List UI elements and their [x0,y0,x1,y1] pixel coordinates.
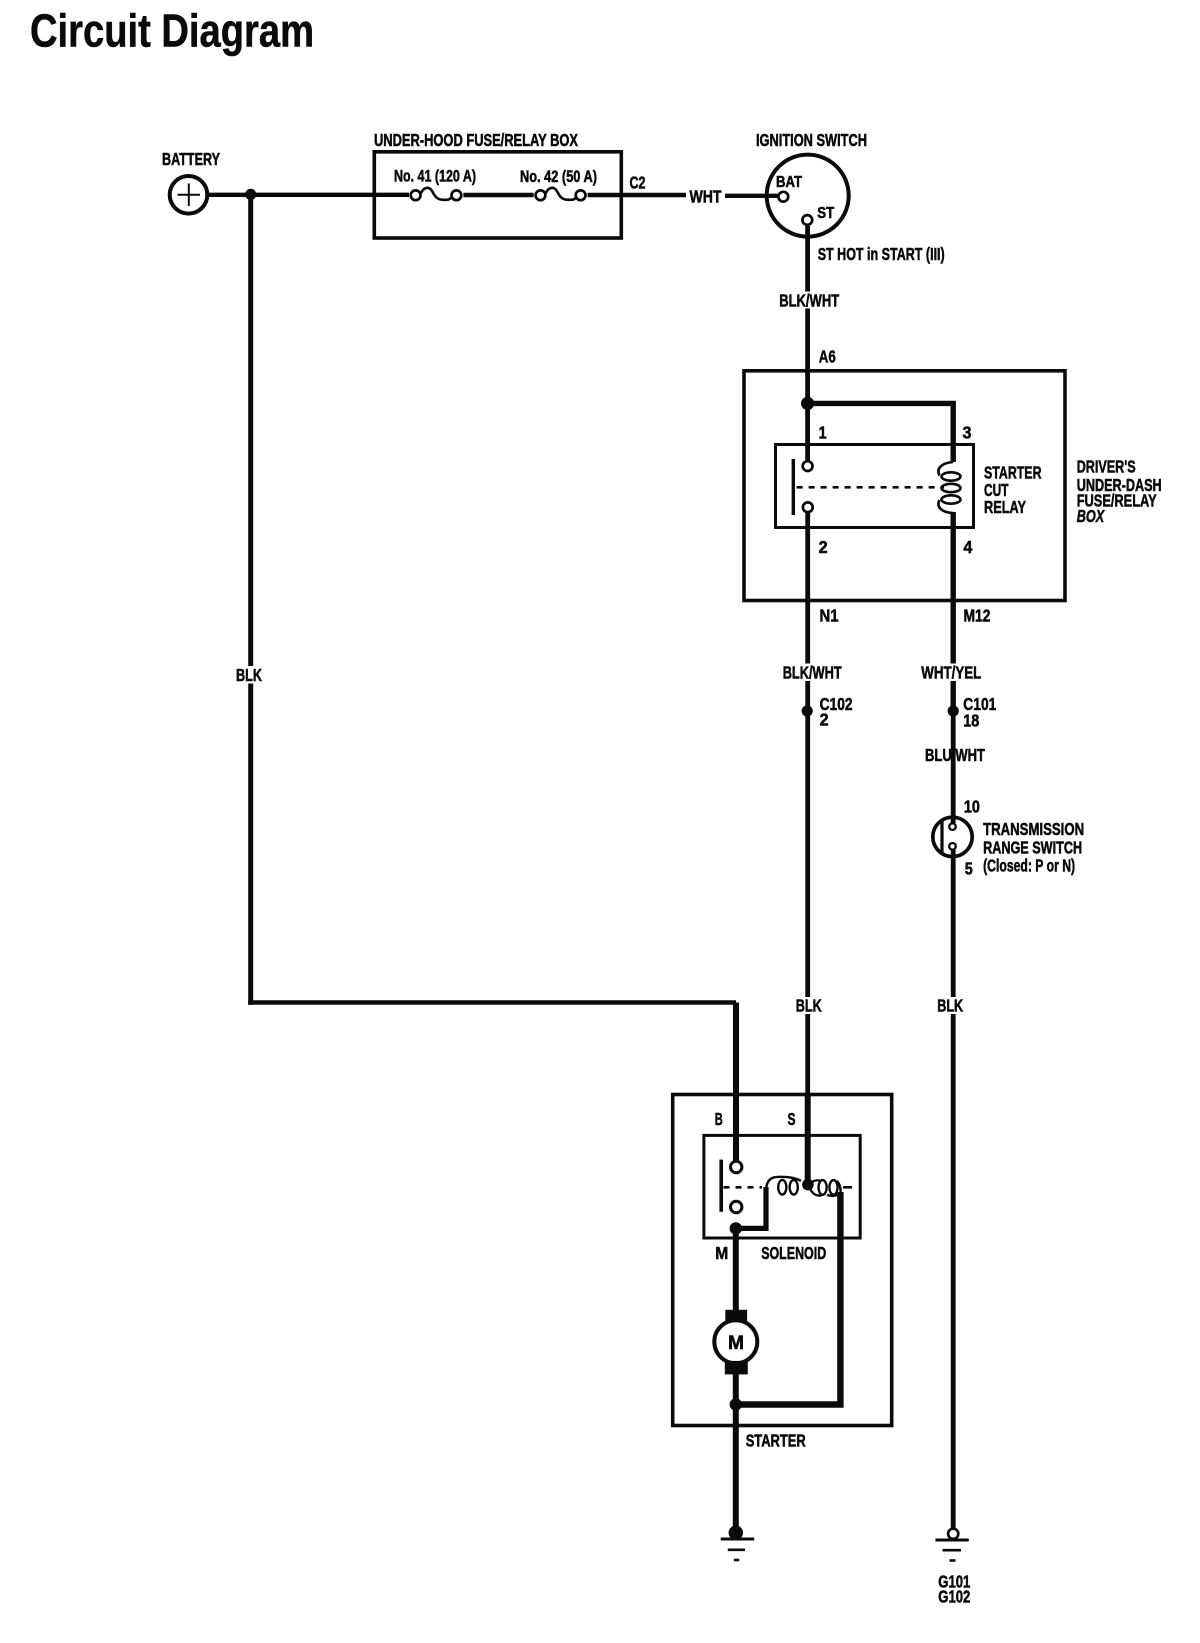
transmission range switch [933,817,972,856]
svg-text:IGNITION SWITCH: IGNITION SWITCH [756,130,867,150]
connector C101 dot [948,705,959,716]
wire between fuses [463,193,533,197]
svg-text:BOX: BOX [1077,506,1105,526]
solenoid contact terminal bottom [731,1201,742,1212]
svg-text:ST: ST [817,205,834,222]
svg-text:RELAY: RELAY [984,497,1026,517]
svg-text:2: 2 [820,710,829,730]
solenoid S junction dot [802,1179,814,1191]
starter motor M1 [714,1320,757,1363]
svg-text:1: 1 [819,423,827,443]
fuse No.41 [411,188,462,200]
svg-text:ST HOT in START (III): ST HOT in START (III) [818,244,945,264]
ground dot left [729,1526,743,1540]
ground terminal right circle [948,1529,958,1539]
dash right of coil [843,1186,852,1189]
M junction dot [730,1222,742,1234]
svg-text:2: 2 [819,537,828,557]
svg-text:WHT: WHT [690,187,722,207]
fuse No.42 [536,188,586,200]
svg-text:BAT: BAT [776,174,802,191]
svg-text:3: 3 [963,423,972,443]
svg-text:BLK/WHT: BLK/WHT [783,663,842,683]
wire junction to coil branch [808,403,954,462]
wire junction down to relay contact 1 [805,403,810,460]
BAT terminal [778,192,788,202]
svg-text:A6: A6 [819,347,836,367]
BLK/WHT label white backing [777,292,841,309]
svg-text:M: M [715,1243,728,1263]
wire battery to fuse box [209,193,409,197]
svg-text:4: 4 [963,537,972,557]
svg-text:Circuit Diagram: Circuit Diagram [30,5,314,57]
wire C101 down to range switch [951,711,956,823]
svg-text:BLK: BLK [796,996,822,1016]
wire fuse2 to WHT gap [588,193,686,197]
BLK label (S wire) white backing [795,997,823,1014]
wire ST down to relay box [805,226,810,403]
motor bottom brush [725,1361,748,1375]
svg-text:(Closed: P or N): (Closed: P or N) [983,855,1075,875]
starter cut relay box [776,445,974,528]
motor top brush [725,1310,747,1325]
BLU/WHT white backing [923,746,988,764]
svg-text:5: 5 [965,859,973,879]
wire M down through motor to ground [733,1228,739,1533]
svg-text:N1: N1 [820,606,839,626]
svg-text:DRIVER'S: DRIVER'S [1077,457,1136,477]
relay contact terminal bottom [803,502,813,512]
transmission range switch label [983,819,1084,876]
svg-text:TRANSMISSION: TRANSMISSION [983,819,1084,839]
BLK/WHT (N1) white backing [780,664,844,682]
svg-text:BLK/WHT: BLK/WHT [779,291,839,311]
svg-text:C2: C2 [630,173,646,193]
junction dot A6 branch [801,397,814,410]
svg-text:BATTERY: BATTERY [162,149,220,169]
svg-text:UNDER-HOOD FUSE/RELAY BOX: UNDER-HOOD FUSE/RELAY BOX [374,130,578,150]
svg-text:10: 10 [964,796,980,816]
solenoid coil [766,1177,840,1196]
svg-text:RANGE SWITCH: RANGE SWITCH [983,837,1082,857]
svg-text:18: 18 [963,711,979,731]
wire contact2 down [805,513,810,711]
ground symbol right [935,1540,968,1561]
svg-text:WHT/YEL: WHT/YEL [921,663,981,683]
battery BT1 [170,176,208,214]
WHT/YEL white backing [919,664,984,682]
wire BLK vertical left [248,194,253,1004]
svg-text:BLK: BLK [937,996,963,1016]
ground symbol left [721,1539,754,1560]
driver's box label [1077,457,1162,527]
wire coil out down and left to M wire [736,1192,841,1405]
solenoid dashed actuator line [724,1186,763,1189]
svg-text:STARTER: STARTER [746,1430,806,1450]
svg-text:S: S [788,1109,796,1129]
range switch bar [940,819,943,853]
starter cut relay label [984,462,1042,517]
svg-text:No. 41 (120 A): No. 41 (120 A) [394,168,476,186]
relay coil [938,462,960,513]
ST terminal [802,215,812,225]
junction dot bottom [730,1398,742,1410]
connector C102 dot [802,705,813,716]
under-hood fuse/relay box [374,152,621,238]
wire WHT to ignition BAT [725,194,778,198]
starter box [673,1095,892,1426]
junction dot at battery branch [245,189,256,200]
svg-text:SOLENOID: SOLENOID [761,1243,826,1263]
BLK left white backing [234,666,265,684]
solenoid contact terminal top [731,1161,742,1172]
svg-text:M: M [728,1333,744,1354]
wire M junction to coil start [736,1187,766,1228]
driver's under-dash fuse/relay box [744,371,1065,601]
solenoid switch bar [719,1160,723,1212]
range switch terminal 5 [949,843,956,850]
svg-text:BLK: BLK [236,665,262,685]
relay dashed actuator line [797,486,944,489]
wire S into solenoid [805,1095,811,1186]
range switch terminal 10 [949,823,956,830]
svg-text:G102: G102 [938,1587,970,1607]
wire S branch down to solenoid [805,711,810,1185]
ignition switch SW1 [767,155,849,237]
wire range switch down to ground [951,850,956,1528]
svg-text:No. 42 (50 A): No. 42 (50 A) [520,168,597,186]
svg-text:B: B [715,1109,723,1129]
wire coil to pin4 down [951,512,956,711]
BLK label (right wire) white backing [937,997,965,1014]
wire horizontal to starter [248,1000,736,1005]
solenoid box [704,1135,860,1238]
wire vertical into starter box B [733,1003,739,1162]
svg-text:M12: M12 [964,606,991,626]
relay contact terminal top [803,461,813,471]
relay switch bar [792,459,795,515]
